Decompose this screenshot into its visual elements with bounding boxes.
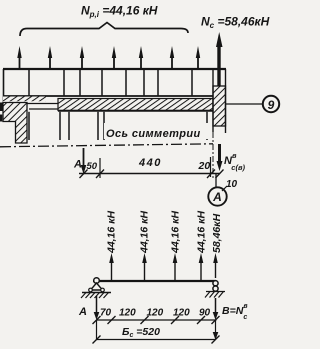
- svg-text:20: 20: [198, 160, 211, 172]
- svg-text:44,16 кН: 44,16 кН: [139, 210, 151, 254]
- svg-text:440: 440: [138, 157, 162, 169]
- svg-text:70: 70: [100, 308, 112, 319]
- svg-text:B=Nвс: B=Nвс: [222, 303, 248, 321]
- svg-text:A: A: [78, 306, 87, 318]
- svg-text:10: 10: [226, 179, 238, 190]
- svg-text:58,46кН: 58,46кН: [211, 213, 223, 253]
- svg-text:A: A: [212, 190, 222, 204]
- svg-text:44,16 кН: 44,16 кН: [106, 210, 118, 254]
- svg-text:Nвс(в): Nвс(в): [224, 151, 245, 172]
- svg-text:44,16 кН: 44,16 кН: [196, 210, 208, 254]
- svg-text:Ось симметрии: Ось симметрии: [106, 128, 201, 140]
- svg-text:44,16 кН: 44,16 кН: [170, 210, 182, 254]
- svg-text:120: 120: [173, 308, 190, 319]
- svg-text:A: A: [73, 159, 82, 171]
- svg-text:120: 120: [147, 308, 164, 319]
- svg-text:50: 50: [87, 161, 98, 172]
- svg-text:Бс =520: Бс =520: [122, 326, 160, 339]
- svg-text:120: 120: [119, 308, 136, 319]
- svg-text:Nс =58,46кН: Nс =58,46кН: [201, 15, 270, 31]
- svg-text:9: 9: [268, 98, 275, 112]
- svg-text:90: 90: [199, 308, 211, 319]
- svg-text:Nр,i =44,16 кН: Nр,i =44,16 кН: [81, 4, 158, 20]
